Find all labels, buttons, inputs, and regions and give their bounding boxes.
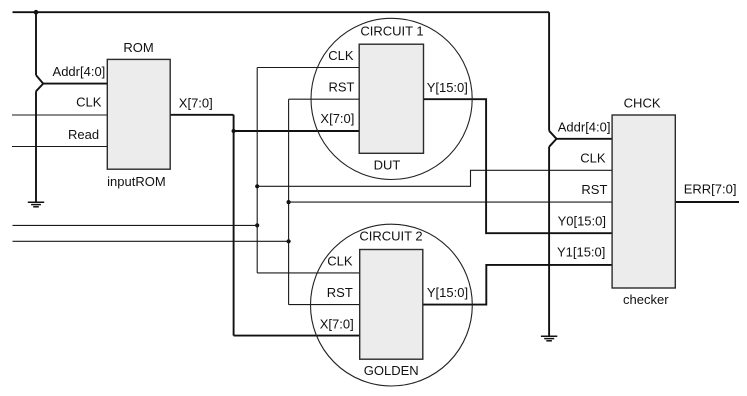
node: CLK external junction <box>255 223 259 227</box>
svg-text:Y1[15:0]: Y1[15:0] <box>557 245 605 260</box>
block: ROM (inputROM) <box>107 59 170 169</box>
svg-text:ERR[7:0]: ERR[7:0] <box>684 182 737 197</box>
wire: right Addr vertical (lower, tap to ground) <box>548 147 550 336</box>
wire: left Addr vertical (lower, tap to ground) <box>35 91 37 201</box>
svg-text:CIRCUIT 2: CIRCUIT 2 <box>359 228 422 243</box>
node: RST external junction <box>287 239 291 243</box>
svg-text:checker: checker <box>623 292 669 307</box>
wire: Read into ROM <box>12 146 107 148</box>
svg-text:RST: RST <box>581 182 607 197</box>
ground (right) <box>541 336 557 341</box>
svg-text:Y[15:0]: Y[15:0] <box>427 285 468 300</box>
svg-text:CLK: CLK <box>327 253 353 268</box>
wire: Y[15:0] from DUT to checker Y0 <box>424 99 613 233</box>
wire: Y[15:0] from GOLDEN to checker Y1 <box>423 265 612 305</box>
svg-text:Addr[4:0]: Addr[4:0] <box>558 120 611 135</box>
node: X junction to DUT <box>232 129 236 133</box>
wire: CLK external input <box>13 224 258 226</box>
wire: CLK vertical distribution <box>256 68 258 273</box>
circle: CIRCUIT 1 boundary <box>311 18 472 179</box>
svg-text:CLK: CLK <box>76 95 102 110</box>
svg-text:Addr[4:0]: Addr[4:0] <box>53 64 106 79</box>
svg-text:X[7:0]: X[7:0] <box>179 95 213 110</box>
block: CHCK (checker) <box>612 115 675 288</box>
svg-text:Read: Read <box>68 127 99 142</box>
block: GOLDEN <box>360 250 423 360</box>
wire: RST into GOLDEN <box>289 304 360 306</box>
svg-text:CIRCUIT 1: CIRCUIT 1 <box>360 23 423 38</box>
svg-text:ROM: ROM <box>123 40 153 55</box>
wire: CLK into GOLDEN <box>257 272 360 274</box>
wire: right Addr vertical (upper, to bus tap) <box>548 12 550 131</box>
wire: CLK into DUT <box>257 67 359 69</box>
svg-text:DUT: DUT <box>374 157 401 172</box>
svg-text:CLK: CLK <box>580 150 606 165</box>
svg-text:X[7:0]: X[7:0] <box>320 316 354 331</box>
wire: Addr[4:0] into ROM <box>43 83 107 85</box>
ground (left) <box>28 202 44 207</box>
block: DUT <box>359 44 423 153</box>
node: CLK junction to checker <box>255 184 259 188</box>
wire: top Addr rail <box>13 11 550 13</box>
svg-text:CHCK: CHCK <box>624 95 661 110</box>
svg-text:Y0[15:0]: Y0[15:0] <box>558 214 606 229</box>
wire: RST external input <box>13 240 289 242</box>
wire: CLK into ROM <box>12 114 107 116</box>
bus tap right (Addr into checker) <box>549 131 556 147</box>
wire: X bus vertical <box>233 115 235 336</box>
svg-text:GOLDEN: GOLDEN <box>364 363 419 378</box>
svg-text:inputROM: inputROM <box>107 174 166 189</box>
wire: RST into DUT <box>289 98 360 100</box>
node: junction top-left <box>34 10 39 15</box>
svg-text:CLK: CLK <box>328 48 354 63</box>
bus tap left (Addr into ROM) <box>36 75 43 91</box>
wire: RST vertical distribution <box>288 99 290 304</box>
svg-text:Y[15:0]: Y[15:0] <box>427 80 468 95</box>
circle: CIRCUIT 2 boundary <box>311 224 473 386</box>
svg-text:RST: RST <box>327 285 353 300</box>
wire: RST to checker <box>289 201 612 203</box>
svg-text:RST: RST <box>329 80 355 95</box>
wire: X[7:0] into DUT <box>234 130 360 132</box>
wire: ERR[7:0] output <box>675 201 739 203</box>
wire: X[7:0] from ROM <box>170 114 233 116</box>
svg-text:X[7:0]: X[7:0] <box>320 111 354 126</box>
wire: left Addr vertical (upper, to bus tap) <box>35 12 37 75</box>
wire: CLK to checker (with step) <box>257 170 612 186</box>
wire: Addr[4:0] into checker <box>557 138 613 140</box>
wire: X[7:0] into GOLDEN <box>234 335 360 337</box>
node: RST junction to checker <box>287 200 291 204</box>
